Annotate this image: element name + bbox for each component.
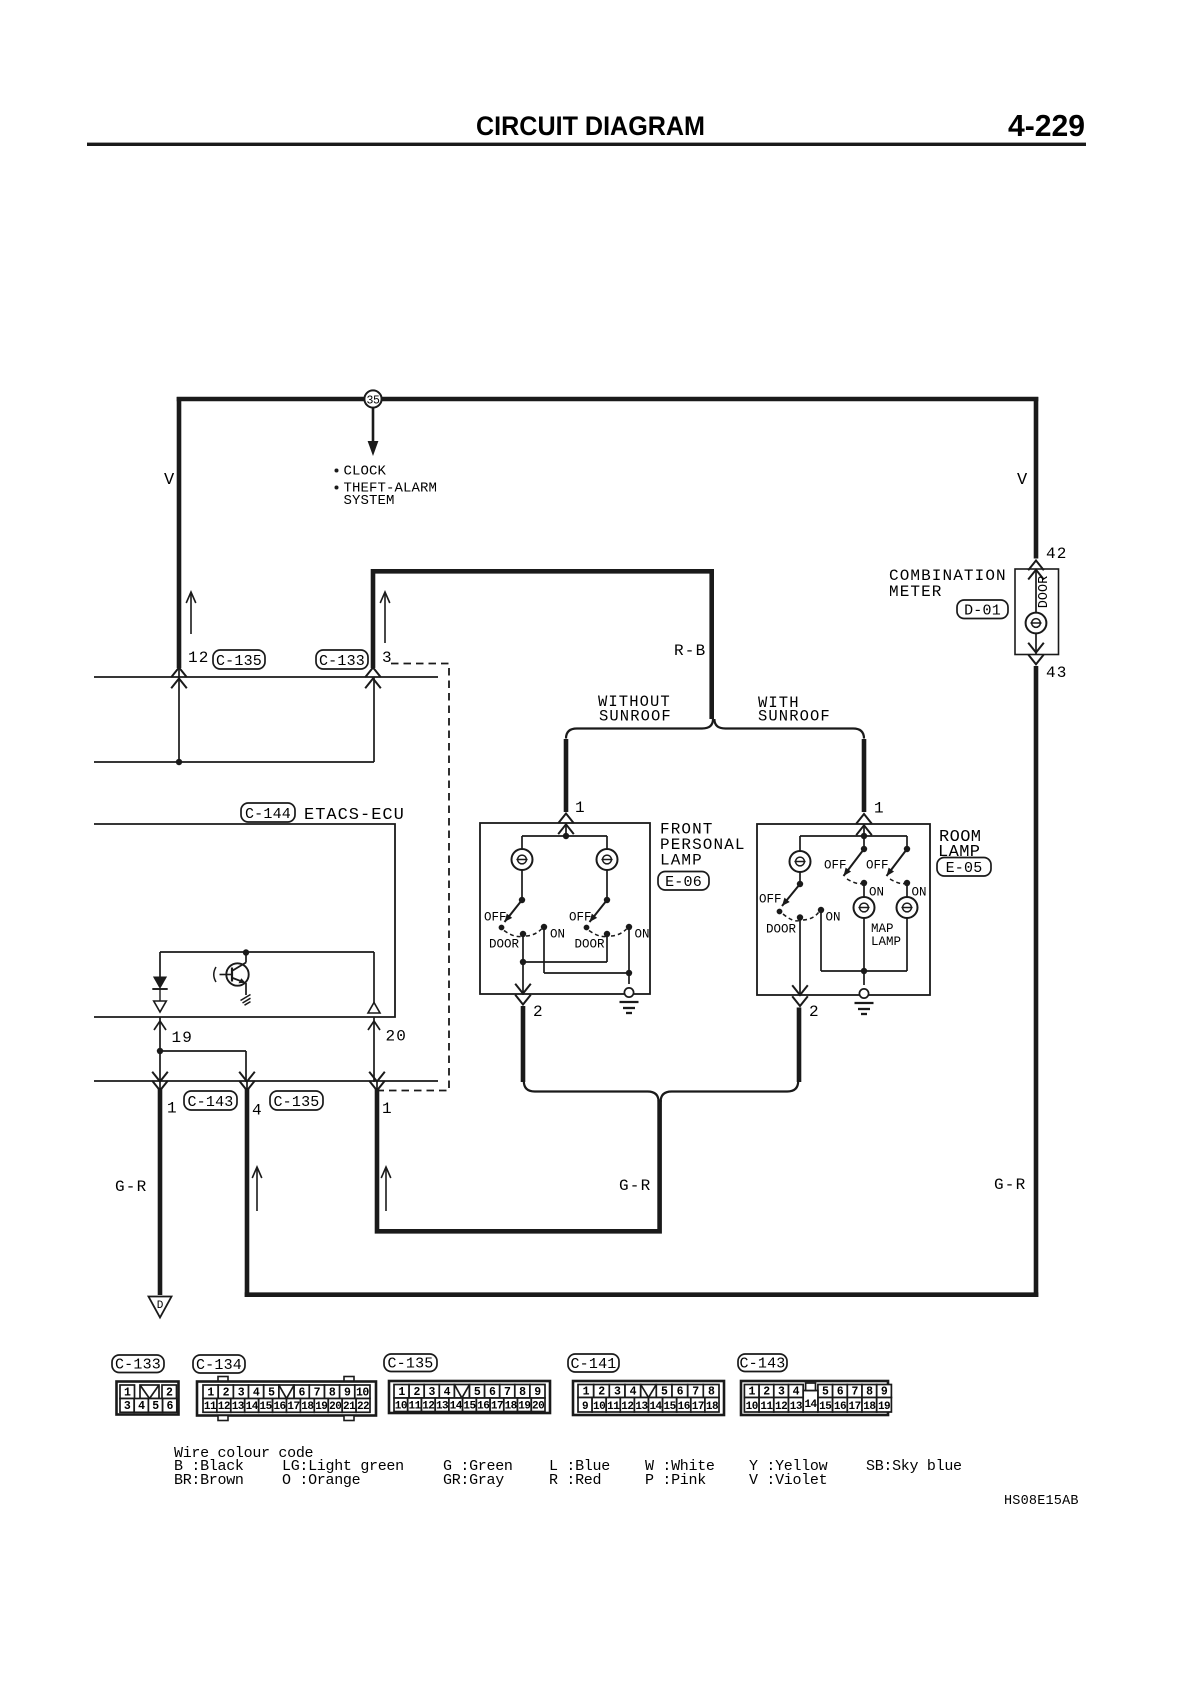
svg-text:17: 17 [692, 1401, 704, 1413]
svg-text:E-06: E-06 [665, 874, 702, 891]
svg-text:17: 17 [287, 1401, 299, 1413]
svg-text:DOOR: DOOR [1037, 576, 1052, 608]
svg-text:3: 3 [614, 1385, 621, 1398]
svg-text:4: 4 [252, 1102, 262, 1120]
svg-text:18: 18 [301, 1401, 314, 1413]
svg-text:19: 19 [518, 1400, 530, 1412]
svg-text:5: 5 [661, 1385, 668, 1398]
svg-text:G-R: G-R [619, 1177, 651, 1195]
svg-text:10: 10 [746, 1401, 758, 1413]
svg-text:3: 3 [429, 1386, 436, 1399]
svg-text:16: 16 [678, 1401, 690, 1413]
svg-text:42: 42 [1046, 545, 1068, 563]
svg-text:12: 12 [775, 1401, 787, 1413]
svg-text:8: 8 [329, 1386, 336, 1399]
svg-text:V :Violet: V :Violet [749, 1472, 827, 1489]
svg-text:18: 18 [505, 1400, 518, 1412]
svg-text:MAP: MAP [871, 922, 894, 936]
svg-text:C-134: C-134 [196, 1357, 242, 1374]
svg-text:4: 4 [253, 1386, 260, 1399]
svg-text:3: 3 [382, 649, 392, 667]
svg-text:19: 19 [172, 1029, 194, 1047]
svg-text:2: 2 [763, 1385, 770, 1398]
svg-text:1: 1 [382, 1100, 392, 1118]
svg-text:21: 21 [343, 1401, 356, 1413]
svg-text:6: 6 [677, 1385, 684, 1398]
svg-text:35: 35 [366, 395, 380, 408]
svg-text:C-133: C-133 [319, 653, 365, 670]
svg-text:2: 2 [413, 1386, 420, 1399]
svg-text:5: 5 [268, 1386, 275, 1399]
svg-text:CIRCUIT DIAGRAM: CIRCUIT DIAGRAM [476, 111, 705, 141]
svg-text:7: 7 [851, 1385, 858, 1398]
svg-text:13: 13 [232, 1401, 245, 1413]
svg-text:C-141: C-141 [570, 1356, 616, 1373]
svg-text:15: 15 [463, 1400, 476, 1412]
svg-text:OFF: OFF [569, 911, 592, 925]
svg-text:OFF: OFF [484, 911, 507, 925]
svg-text:14: 14 [246, 1401, 259, 1413]
svg-text:2: 2 [223, 1386, 230, 1399]
svg-text:C-135: C-135 [273, 1094, 319, 1111]
svg-text:7: 7 [692, 1385, 699, 1398]
svg-text:10: 10 [395, 1400, 407, 1412]
svg-text:C-135: C-135 [387, 1355, 433, 1372]
svg-text:2: 2 [166, 1386, 173, 1399]
svg-text:R :Red: R :Red [549, 1472, 601, 1489]
svg-text:DOOR: DOOR [489, 938, 520, 952]
svg-text:18: 18 [863, 1401, 876, 1413]
svg-text:15: 15 [819, 1401, 832, 1413]
svg-text:5: 5 [474, 1386, 481, 1399]
svg-text:DOOR: DOOR [575, 938, 606, 952]
svg-text:4: 4 [138, 1400, 145, 1413]
svg-text:13: 13 [635, 1401, 648, 1413]
svg-text:ON: ON [869, 886, 884, 900]
svg-text:V: V [164, 471, 175, 490]
svg-text:8: 8 [866, 1385, 873, 1398]
svg-text:6: 6 [837, 1385, 844, 1398]
svg-text:16: 16 [273, 1401, 285, 1413]
svg-text:7: 7 [314, 1386, 321, 1399]
svg-text:GR:Gray: GR:Gray [443, 1472, 504, 1489]
svg-text:OFF: OFF [866, 859, 889, 873]
svg-text:CLOCK: CLOCK [344, 464, 387, 480]
svg-text:ON: ON [550, 928, 565, 942]
svg-text:LAMP: LAMP [660, 852, 703, 870]
svg-text:D: D [157, 1300, 164, 1312]
svg-text:20: 20 [386, 1028, 408, 1046]
svg-text:3: 3 [238, 1386, 245, 1399]
svg-text:SUNROOF: SUNROOF [758, 708, 831, 726]
svg-text:5: 5 [822, 1385, 829, 1398]
svg-text:11: 11 [760, 1401, 773, 1413]
svg-text:6: 6 [298, 1386, 305, 1399]
svg-text:4: 4 [630, 1385, 637, 1398]
svg-text:3: 3 [124, 1400, 131, 1413]
svg-text:8: 8 [519, 1386, 526, 1399]
svg-text:SYSTEM: SYSTEM [344, 493, 395, 509]
svg-text:ON: ON [826, 911, 841, 925]
svg-text:14: 14 [450, 1400, 463, 1412]
svg-text:E-05: E-05 [946, 860, 983, 877]
svg-text:ON: ON [912, 886, 927, 900]
svg-text:G-R: G-R [994, 1176, 1026, 1194]
svg-text:2: 2 [533, 1003, 543, 1021]
svg-text:D-01: D-01 [964, 602, 1001, 619]
svg-text:14: 14 [649, 1401, 662, 1413]
svg-text:7: 7 [504, 1386, 511, 1399]
svg-text:4: 4 [793, 1385, 800, 1398]
svg-text:1: 1 [575, 799, 585, 817]
svg-text:ON: ON [635, 928, 650, 942]
svg-text:OFF: OFF [759, 893, 782, 907]
svg-text:11: 11 [607, 1401, 620, 1413]
svg-text:BR:Brown: BR:Brown [174, 1472, 244, 1489]
svg-text:16: 16 [477, 1400, 489, 1412]
svg-text:C-143: C-143 [187, 1094, 233, 1111]
svg-text:C-135: C-135 [216, 653, 262, 670]
svg-text:6: 6 [489, 1386, 496, 1399]
svg-text:2: 2 [809, 1003, 819, 1021]
svg-text:LAMP: LAMP [871, 935, 901, 949]
svg-text:17: 17 [491, 1400, 503, 1412]
svg-text:1: 1 [583, 1385, 590, 1398]
svg-text:C-143: C-143 [739, 1355, 785, 1372]
svg-text:C-144: C-144 [245, 806, 291, 823]
svg-text:3: 3 [778, 1385, 785, 1398]
svg-text:2: 2 [598, 1385, 605, 1398]
svg-text:ETACS-ECU: ETACS-ECU [304, 806, 405, 825]
svg-text:12: 12 [621, 1401, 633, 1413]
svg-text:13: 13 [436, 1400, 449, 1412]
svg-text:METER: METER [889, 583, 943, 601]
svg-text:SUNROOF: SUNROOF [599, 708, 672, 726]
svg-text:DOOR: DOOR [766, 923, 797, 937]
svg-text:9: 9 [534, 1386, 541, 1399]
svg-text:20: 20 [532, 1400, 544, 1412]
svg-text:SB:Sky blue: SB:Sky blue [866, 1458, 962, 1475]
svg-text:15: 15 [664, 1401, 677, 1413]
svg-text:1: 1 [207, 1386, 214, 1399]
svg-text:13: 13 [790, 1401, 803, 1413]
svg-text:19: 19 [878, 1401, 890, 1413]
svg-text:C-133: C-133 [115, 1356, 161, 1373]
svg-text:19: 19 [315, 1401, 327, 1413]
svg-text:11: 11 [408, 1400, 421, 1412]
svg-text:16: 16 [834, 1401, 846, 1413]
svg-text:R-B: R-B [674, 642, 706, 660]
svg-text:20: 20 [329, 1401, 341, 1413]
svg-text:11: 11 [204, 1401, 217, 1413]
svg-text:1: 1 [874, 800, 884, 818]
svg-text:9: 9 [881, 1385, 888, 1398]
svg-text:P :Pink: P :Pink [645, 1472, 706, 1489]
svg-text:G-R: G-R [115, 1178, 147, 1196]
svg-text:6: 6 [166, 1400, 173, 1413]
svg-text:43: 43 [1046, 664, 1068, 682]
svg-text:1: 1 [167, 1100, 177, 1118]
svg-text:8: 8 [708, 1385, 715, 1398]
svg-text:10: 10 [356, 1386, 369, 1399]
svg-text:4: 4 [444, 1386, 451, 1399]
svg-text:HS08E15AB: HS08E15AB [1004, 1494, 1079, 1509]
svg-text:V: V [1017, 471, 1028, 490]
svg-text:10: 10 [593, 1401, 605, 1413]
svg-text:9: 9 [582, 1401, 588, 1413]
svg-text:22: 22 [357, 1401, 369, 1413]
svg-text:12: 12 [218, 1401, 230, 1413]
svg-text:OFF: OFF [824, 859, 847, 873]
svg-text:1: 1 [749, 1385, 756, 1398]
svg-text:12: 12 [422, 1400, 434, 1412]
svg-text:17: 17 [849, 1401, 861, 1413]
svg-text:14: 14 [804, 1399, 817, 1411]
svg-text:1: 1 [124, 1386, 131, 1399]
svg-text:1: 1 [398, 1386, 405, 1399]
svg-text:5: 5 [152, 1400, 159, 1413]
svg-text:18: 18 [706, 1401, 719, 1413]
svg-text:O :Orange: O :Orange [282, 1472, 361, 1489]
svg-text:4-229: 4-229 [1008, 108, 1085, 143]
svg-text:9: 9 [344, 1386, 351, 1399]
svg-text:15: 15 [260, 1401, 273, 1413]
svg-text:12: 12 [188, 649, 210, 667]
